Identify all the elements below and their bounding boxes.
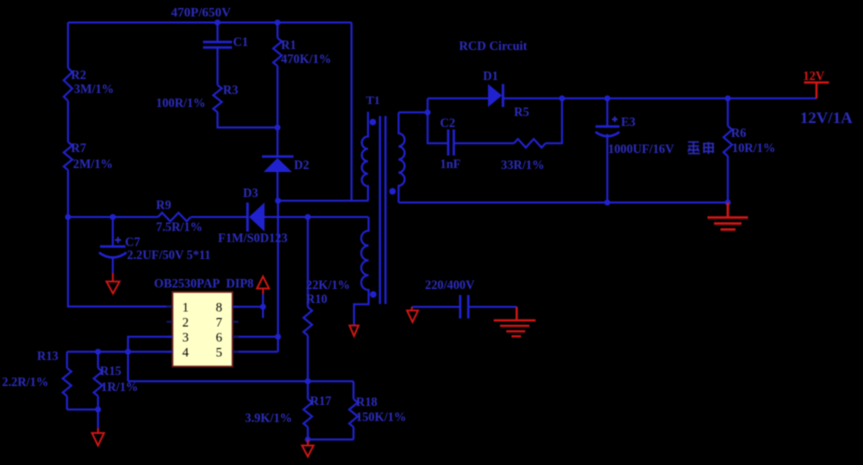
wire to C2 (428, 112, 448, 143)
svg-text:4: 4 (182, 344, 189, 359)
junction node R13/R15 bottom (95, 407, 101, 413)
svg-text:1000UF/16V: 1000UF/16V (608, 142, 674, 156)
wire rail to D1 anode (428, 97, 488, 99)
wire R2 to R7 (67, 101, 69, 142)
svg-text:8: 8 (216, 299, 223, 314)
svg-text:2M/1%: 2M/1% (73, 157, 113, 171)
svg-text:1nF: 1nF (440, 157, 461, 171)
svg-text:220/400V: 220/400V (425, 278, 475, 292)
svg-text:OB2530PAP DIP8: OB2530PAP DIP8 (154, 277, 254, 291)
wire output return rail (399, 202, 728, 204)
junction phase dot secondary (389, 188, 396, 195)
svg-text:150K/1%: 150K/1% (356, 410, 406, 424)
resistor R7 (64, 142, 73, 170)
svg-text:R1: R1 (281, 38, 296, 52)
wire R18 bottom lead (353, 427, 355, 440)
pin 7 stub (233, 321, 239, 323)
wire R10 top lead (307, 217, 309, 307)
junction node R7/pin1 (65, 214, 71, 220)
svg-text:12V/1A: 12V/1A (800, 108, 853, 127)
junction node E3 bottom (604, 200, 610, 206)
junction node bottom rail/R17 (305, 378, 311, 384)
junction phase dot primary (370, 119, 377, 126)
wire R7 bottom lead (67, 170, 69, 217)
pin 6 stub (233, 336, 239, 338)
pin 1 stub (167, 306, 173, 308)
junction node pin8 (260, 304, 266, 310)
T1 core (380, 116, 386, 304)
wire pin3 jog (128, 337, 173, 382)
svg-text:100R/1%: 100R/1% (156, 96, 206, 110)
svg-text:33R/1%: 33R/1% (501, 158, 544, 172)
wire up to output rail (427, 98, 429, 112)
svg-text:R7: R7 (71, 141, 86, 155)
wire R1 top lead (277, 23, 279, 39)
svg-text:D1: D1 (483, 69, 498, 83)
pin 4 stub (167, 351, 173, 353)
svg-text:470P/650V: 470P/650V (171, 5, 232, 20)
ground arrow at cap left (407, 307, 418, 322)
ground arrow below R15 (92, 428, 104, 446)
wire cap left lead (412, 306, 459, 308)
wire R17 bottom lead (307, 427, 309, 440)
wire pin5 wire (233, 351, 278, 353)
wire R15 bottom lead (97, 396, 99, 410)
junction phase dot auxiliary (370, 291, 377, 298)
VCC arrow (red, up) at pin8 (257, 277, 269, 295)
wire pin1 wire (68, 217, 173, 307)
svg-text:6: 6 (216, 329, 223, 344)
junction node R6 top (725, 95, 731, 101)
junction node R15 top (95, 349, 101, 355)
svg-text:5: 5 (216, 344, 223, 359)
svg-text:R6: R6 (731, 126, 746, 140)
svg-text:470K/1%: 470K/1% (281, 52, 331, 66)
ground arrow below C7 (107, 273, 120, 294)
wire C7 bottom lead (112, 258, 114, 273)
svg-text:R9: R9 (156, 198, 171, 212)
junction node snubber (425, 109, 431, 115)
junction node pin6 (275, 334, 281, 340)
junction node R17/R18 bottom (305, 437, 311, 443)
junction node output ground (725, 200, 731, 206)
svg-text:3.9K/1%: 3.9K/1% (245, 411, 292, 425)
wire C2 to R5 (455, 142, 515, 144)
junction node drain A (275, 198, 281, 204)
wire R10 bottom lead (307, 336, 309, 382)
svg-text:R10: R10 (306, 292, 327, 306)
svg-text:R18: R18 (356, 395, 377, 409)
wire R13 top lead (66, 352, 68, 368)
wire stem to ground arrow (97, 410, 99, 429)
wire drain vertical (277, 201, 279, 352)
wire R1 bottom lead (277, 66, 279, 128)
resistor R3 (213, 85, 222, 112)
svg-text:R3: R3 (223, 83, 238, 97)
T1 primary winding (362, 112, 368, 201)
svg-text:R5: R5 (514, 105, 529, 119)
svg-text:10R/1%: 10R/1% (732, 141, 775, 155)
svg-text:7: 7 (216, 314, 223, 329)
wire pin8 wire (233, 306, 263, 308)
wire cap right lead (470, 306, 517, 308)
junction node R5/rail (559, 95, 565, 101)
svg-text:T1: T1 (366, 93, 380, 107)
svg-text:R15: R15 (100, 364, 121, 378)
wire R17/R18 bottom tie (308, 439, 354, 441)
svg-text:RCD Circuit: RCD Circuit (459, 39, 528, 53)
wire D3 anode to aux winding (265, 216, 369, 218)
junction node C1 top (215, 20, 221, 26)
earth ground (middle, red) (494, 307, 536, 336)
svg-text:C7: C7 (125, 235, 140, 249)
wire clamp to primary bottom (278, 200, 368, 202)
wire R13 bottom lead (66, 396, 68, 410)
junction node R10 top (305, 214, 311, 220)
junction node E3 top (604, 95, 610, 101)
resistor R5 (514, 139, 546, 148)
junction node C7 (110, 214, 116, 220)
wire C1 top lead (217, 23, 219, 42)
pin 3 stub (167, 336, 173, 338)
wire bottom rail (128, 380, 354, 382)
wire R15 top lead (97, 352, 99, 368)
wire secondary top to C2 node (399, 111, 428, 113)
wire D2 anode lead (277, 172, 279, 201)
svg-text:R13: R13 (37, 349, 58, 363)
wire C1 bottom lead (217, 49, 219, 86)
svg-text:7.5R/1%: 7.5R/1% (156, 220, 202, 234)
svg-text:C1: C1 (233, 35, 248, 49)
earth ground (output, red) (708, 203, 749, 230)
capacitor C2 (448, 130, 454, 156)
wire R18 top lead (353, 381, 355, 399)
wire top loop right vertical (351, 23, 353, 201)
wire top rail (68, 22, 352, 24)
svg-text:2: 2 (182, 314, 189, 329)
svg-text:22K/1%: 22K/1% (306, 278, 350, 292)
svg-text:3M/1%: 3M/1% (74, 82, 114, 96)
svg-text:2.2UF/50V 5*11: 2.2UF/50V 5*11 (127, 248, 211, 262)
svg-text:1: 1 (182, 299, 189, 314)
wire E3 top lead (606, 98, 608, 126)
diode D1 (488, 84, 502, 107)
ground arrow below R17 (302, 440, 314, 457)
wire R6 top lead (727, 98, 729, 126)
wire R6 bottom lead (727, 156, 729, 203)
pin 8 stub (233, 306, 239, 308)
T1 auxiliary winding (354, 217, 369, 326)
wire output rail (504, 97, 817, 99)
svg-text:D3: D3 (243, 186, 258, 200)
svg-text:R2: R2 (71, 68, 86, 82)
junction node pin3/pin4 (125, 349, 131, 355)
svg-text:3: 3 (182, 329, 189, 344)
pin 2 stub (167, 321, 173, 323)
svg-text:E3: E3 (621, 115, 635, 129)
resistor R9 (158, 213, 191, 222)
wire pin4 wire (67, 351, 173, 353)
svg-text:D2: D2 (294, 158, 309, 172)
svg-text:2.2R/1%: 2.2R/1% (2, 375, 48, 389)
wire R3 to R1 bottom (218, 112, 278, 128)
pin 5 stub (233, 351, 239, 353)
op-amp/IC U1 OB2530PAP (173, 292, 233, 367)
wire E3 bottom lead (606, 134, 608, 203)
wire pin6 wire (233, 336, 278, 338)
wire R2 top lead (67, 23, 69, 69)
svg-text:R17: R17 (310, 394, 331, 408)
wire R17 top lead (307, 381, 309, 399)
ground arrow below aux winding (350, 326, 359, 337)
wire R5 to rail (546, 98, 563, 143)
wire C7 top lead (112, 217, 114, 246)
E3 value CJK glyphs (688, 142, 700, 154)
svg-text:C2: C2 (440, 116, 455, 130)
T1 secondary winding (399, 112, 405, 202)
wire VDD row left (68, 216, 158, 218)
wire D2 cathode lead (277, 128, 279, 157)
junction node clamp top (275, 125, 281, 131)
wire pin8 stub vertical (262, 294, 264, 318)
junction node R1 top (275, 20, 281, 26)
wire R13/R15 bottom tie (67, 409, 98, 411)
diode D3 (246, 203, 249, 232)
svg-text:12V: 12V (803, 69, 825, 83)
wire R9 to D3 (191, 216, 247, 218)
